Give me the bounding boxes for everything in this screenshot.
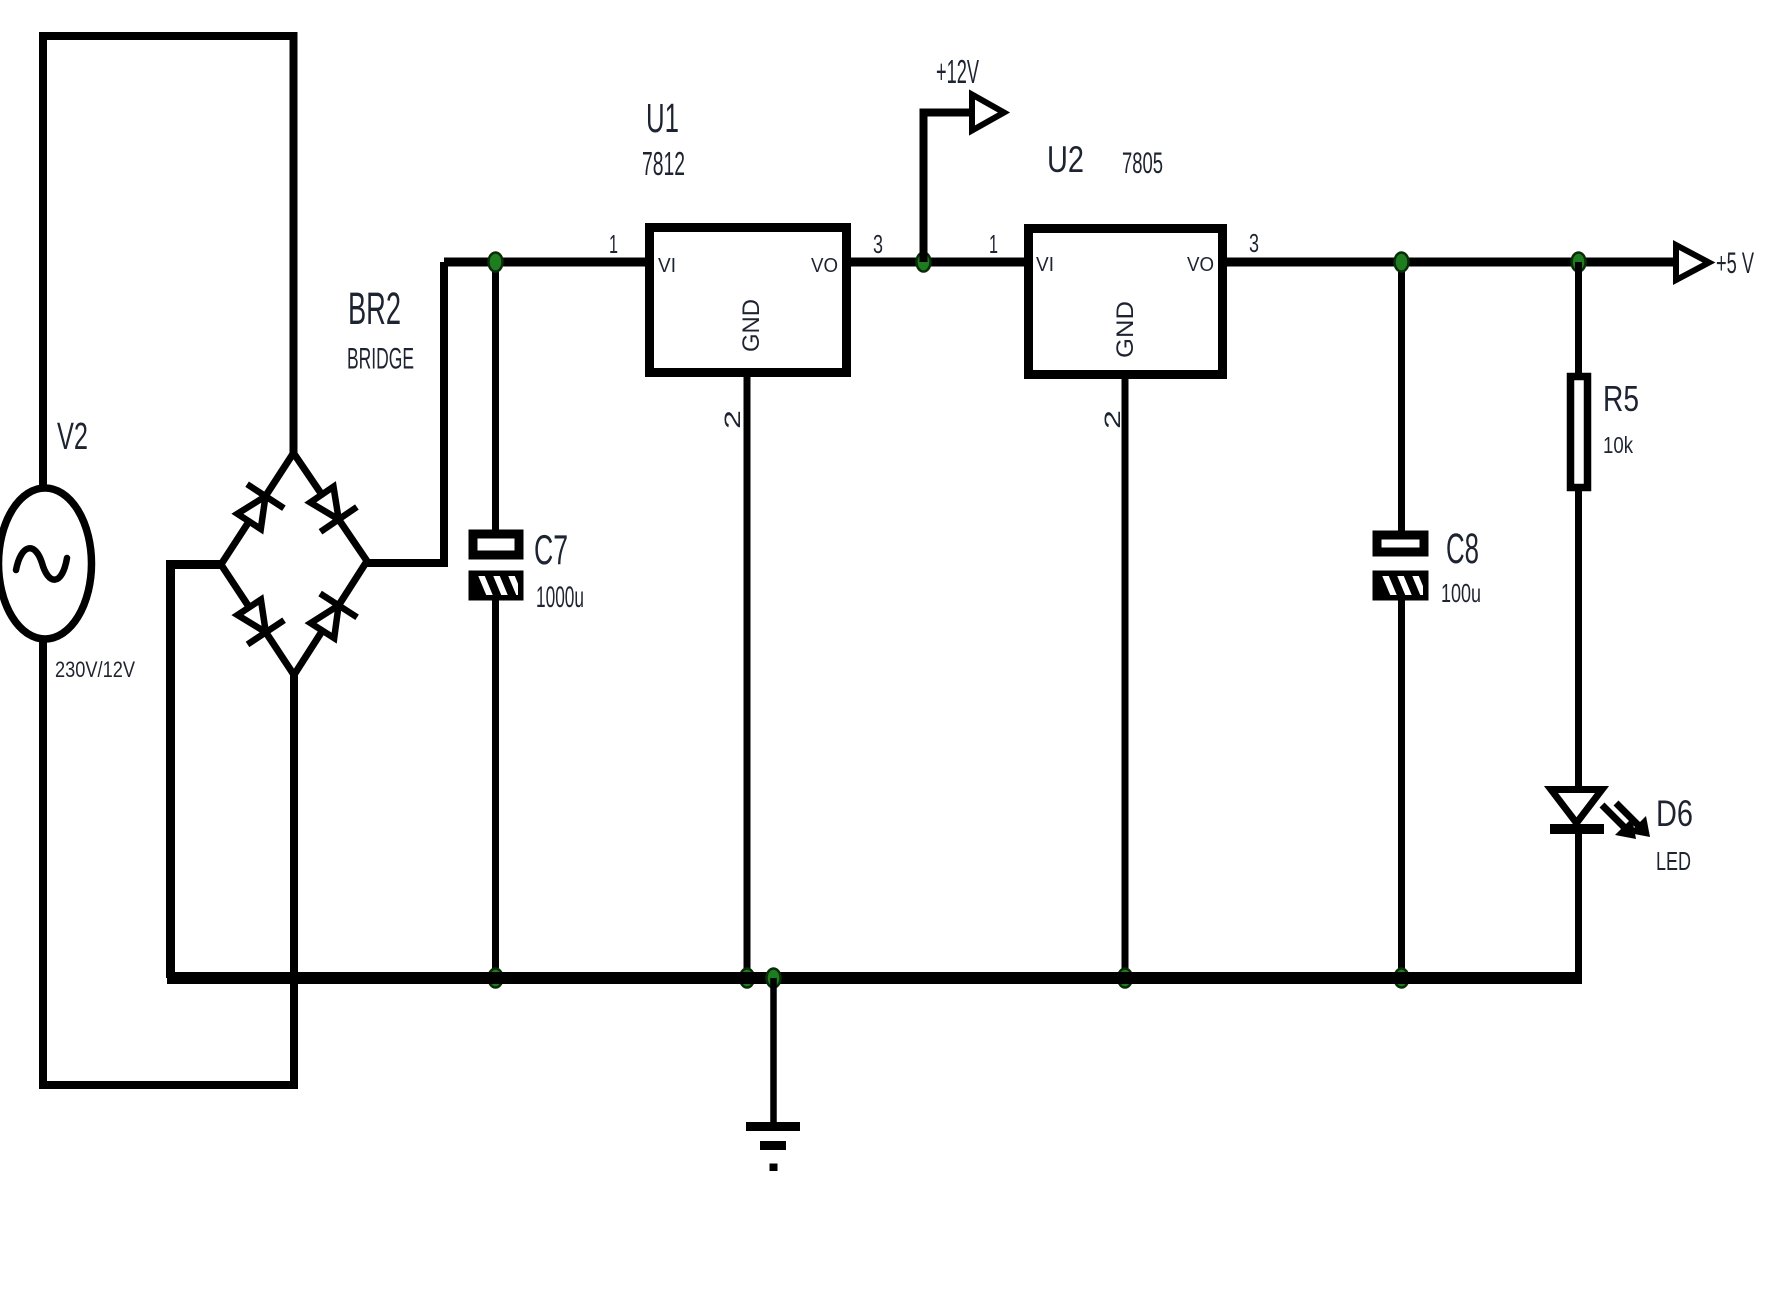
svg-text:+5 V: +5 V xyxy=(1716,247,1754,280)
svg-text:V2: V2 xyxy=(57,416,88,458)
wire top loop from V2 top to bridge top vertex xyxy=(43,36,294,490)
svg-text:2: 2 xyxy=(1100,410,1125,429)
svg-text:C8: C8 xyxy=(1446,525,1479,573)
bridge rectifier BR2 diamond xyxy=(221,453,367,675)
svg-text:3: 3 xyxy=(873,229,883,259)
wire C8 bottom stem to ground bus xyxy=(1398,596,1405,978)
wire C8 top stem xyxy=(1398,262,1405,535)
svg-text:VO: VO xyxy=(1187,254,1214,276)
wire R5 bottom to LED anode xyxy=(1575,487,1582,792)
svg-text:100u: 100u xyxy=(1441,578,1481,608)
wire rail U1 VO to U2 VI xyxy=(847,258,1028,267)
svg-text:BRIDGE: BRIDGE xyxy=(347,343,414,376)
node junction U1 GND/bus xyxy=(740,969,754,988)
wire C7 bottom stem to ground bus xyxy=(492,596,499,978)
svg-text:VI: VI xyxy=(658,255,676,277)
wire rail U2 VO to +5V terminal xyxy=(1223,258,1676,267)
svg-text:U1: U1 xyxy=(646,95,679,141)
svg-text:1: 1 xyxy=(609,229,618,259)
svg-text:1000u: 1000u xyxy=(536,581,584,614)
svg-text:R5: R5 xyxy=(1603,378,1639,419)
svg-text:U2: U2 xyxy=(1047,139,1084,180)
svg-text:VI: VI xyxy=(1036,254,1054,276)
svg-text:10k: 10k xyxy=(1603,432,1633,458)
LED D6 xyxy=(1550,790,1650,840)
wire bottom loop from V2 bottom to bridge bottom vertex xyxy=(43,638,294,1085)
AC source V2 xyxy=(0,488,92,639)
svg-text:D6: D6 xyxy=(1656,793,1693,834)
wire bridge left vertex to ground bus xyxy=(171,565,222,979)
svg-text:LED: LED xyxy=(1656,846,1691,876)
svg-text:GND: GND xyxy=(738,299,765,352)
node junction C8/rail xyxy=(1395,253,1409,272)
node junction C7/rail xyxy=(489,253,503,272)
wire ground bus xyxy=(167,972,1582,984)
svg-text:GND: GND xyxy=(1112,301,1139,358)
power terminal +5V arrow xyxy=(1676,245,1709,280)
capacitor C8 xyxy=(1373,535,1429,601)
diode D-TR of bridge xyxy=(310,487,357,532)
node junction C7/bus xyxy=(489,969,503,988)
wire U2 GND pin to ground bus xyxy=(1122,375,1129,978)
svg-text:VO: VO xyxy=(811,255,838,277)
wire +12V stub xyxy=(924,113,973,263)
wire C7 top stem xyxy=(492,262,499,534)
wire rail from bridge to U1 pin1 xyxy=(444,258,649,267)
resistor R5 xyxy=(1571,377,1588,488)
svg-text:+12V: +12V xyxy=(936,53,979,90)
wire U1 GND pin to ground bus xyxy=(744,373,751,978)
node junction C8/bus xyxy=(1395,969,1409,988)
capacitor C7 xyxy=(469,534,524,601)
node junction +12V tap xyxy=(917,253,931,272)
svg-text:7805: 7805 xyxy=(1122,147,1163,180)
svg-text:3: 3 xyxy=(1249,228,1259,258)
svg-text:BR2: BR2 xyxy=(348,283,401,334)
svg-text:230V/12V: 230V/12V xyxy=(55,657,135,682)
node junction R5 tap on rail xyxy=(1572,253,1586,272)
wire bridge right vertex up to rail xyxy=(367,262,444,563)
regulator U2 box xyxy=(1029,229,1223,375)
ground xyxy=(746,978,800,1171)
node junction U2 GND/bus xyxy=(1118,969,1132,988)
diode D-BL of bridge xyxy=(238,600,285,645)
wire R5 top stem xyxy=(1575,262,1582,377)
power terminal +12V arrow xyxy=(972,95,1004,131)
svg-text:7812: 7812 xyxy=(642,145,685,182)
svg-text:C7: C7 xyxy=(534,526,568,573)
node junction ground symbol/bus xyxy=(767,969,781,988)
svg-text:2: 2 xyxy=(720,410,745,429)
diode D-BR of bridge xyxy=(311,594,358,639)
diode D-TL of bridge xyxy=(237,484,284,529)
wire LED cathode to ground bus xyxy=(1575,829,1582,978)
regulator U1 box xyxy=(650,228,847,373)
svg-text:1: 1 xyxy=(989,229,998,259)
